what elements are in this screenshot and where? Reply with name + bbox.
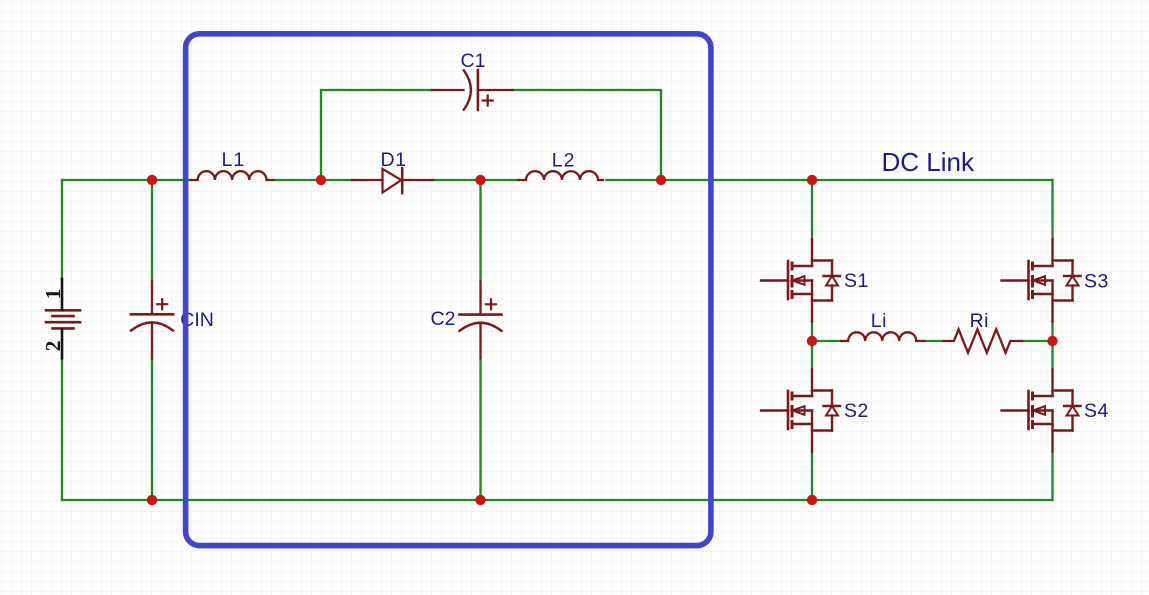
S3 source left branch xyxy=(1033,293,1053,295)
node mid rail / S1-S2 xyxy=(807,336,817,346)
node top rail / S1 drain xyxy=(807,175,817,185)
S4 source pin xyxy=(1051,411,1053,452)
capacitor C2 xyxy=(460,281,502,358)
S3 body diode xyxy=(1071,261,1073,277)
S3 source bottom-right branch xyxy=(1053,299,1073,301)
S4 gate line xyxy=(1027,391,1030,429)
svg-text:D1: D1 xyxy=(381,149,407,171)
svg-text:S2: S2 xyxy=(844,400,869,422)
svg-text:2: 2 xyxy=(41,341,65,352)
battery BAT plates xyxy=(46,310,80,328)
S2 drain pin xyxy=(811,370,813,397)
svg-text:1: 1 xyxy=(41,289,65,300)
wire S1 to S2 xyxy=(811,322,813,370)
S4 channel bars xyxy=(1031,392,1034,430)
wire C1 right branch xyxy=(513,90,661,180)
wire Li to Ri xyxy=(925,340,944,342)
wire C2 column bottom xyxy=(479,358,481,500)
blue highlight box xyxy=(186,34,711,546)
node top rail / C1 right branch xyxy=(656,175,666,185)
wire mid rail to Li xyxy=(812,340,841,342)
S1 source left branch xyxy=(792,293,812,295)
transistor S4 xyxy=(1002,370,1081,452)
wire top rail segment D1 to L2 xyxy=(433,179,519,181)
capacitor CIN xyxy=(131,281,173,358)
wire Ri to right column xyxy=(1022,340,1053,342)
wire left column above battery xyxy=(61,180,63,279)
S3 gate stub xyxy=(1002,279,1029,281)
S4 gate stub xyxy=(1002,409,1029,411)
node top rail / C1 left branch xyxy=(316,175,326,185)
S4 source bottom-right branch xyxy=(1053,429,1073,431)
wire right column below S4 xyxy=(1051,451,1053,500)
svg-text:L2: L2 xyxy=(552,150,576,172)
S1 body diode xyxy=(831,261,833,277)
S4 source left branch xyxy=(1033,423,1053,425)
S1 drain top-right branch xyxy=(812,259,832,261)
wire top rail segment L1 to D1 xyxy=(273,179,352,181)
S1 gate line xyxy=(787,261,790,299)
wire C2 column top xyxy=(479,180,481,281)
S1 bulk arrow xyxy=(793,279,812,281)
svg-text:S1: S1 xyxy=(844,270,869,292)
wire below S2 xyxy=(811,451,813,500)
node bottom rail / C2 xyxy=(475,495,485,505)
wire top rail segment L2 to right corner xyxy=(607,179,1053,181)
S2 drain top-right branch xyxy=(812,389,832,391)
inductor Li xyxy=(841,332,924,341)
capacitor C1 xyxy=(432,70,513,110)
S2 bulk arrow xyxy=(793,409,812,411)
S2 gate line xyxy=(787,391,790,429)
S3 bulk arrow xyxy=(1034,279,1053,281)
node bottom rail / CIN xyxy=(147,495,157,505)
S2 channel bars xyxy=(791,392,794,430)
node top rail / battery+CIN xyxy=(147,175,157,185)
S3 gate line xyxy=(1027,261,1030,299)
wire C1 left branch xyxy=(321,90,432,180)
S3 drain top-right branch xyxy=(1053,259,1073,261)
svg-text:Ri: Ri xyxy=(970,310,989,332)
diode D1 xyxy=(352,168,433,193)
svg-text:Li: Li xyxy=(871,310,887,332)
S2 source bottom-right branch xyxy=(812,429,832,431)
svg-text:S4: S4 xyxy=(1084,400,1109,422)
wire right column S3 to S4 xyxy=(1051,322,1053,370)
node mid rail / S3-S4 xyxy=(1047,336,1057,346)
battery pins (black) xyxy=(61,279,64,358)
S3 drain left branch xyxy=(1033,265,1053,267)
S4 drain pin xyxy=(1051,370,1053,397)
S1 drain left branch xyxy=(792,265,812,267)
wire CIN column top xyxy=(151,180,153,281)
node top rail / C2 xyxy=(475,175,485,185)
transistor S3 xyxy=(1002,240,1081,322)
S1 source pin xyxy=(811,281,813,322)
svg-text:C1: C1 xyxy=(461,50,486,72)
svg-text:L1: L1 xyxy=(222,149,246,171)
S3 source pin xyxy=(1051,281,1053,322)
svg-text:DC Link: DC Link xyxy=(882,147,975,177)
wire S1 column top xyxy=(811,180,813,240)
S4 body diode xyxy=(1071,391,1073,407)
transistor S2 xyxy=(761,370,840,452)
wire bottom rail xyxy=(62,499,1053,501)
S3 channel bars xyxy=(1031,262,1034,300)
svg-text:C2: C2 xyxy=(431,308,456,330)
S2 body diode xyxy=(831,391,833,407)
wire right column above S3 xyxy=(1051,180,1053,240)
S1 channel bars xyxy=(791,262,794,300)
resistor Ri xyxy=(943,329,1022,352)
node bottom rail / S2 source xyxy=(807,495,817,505)
S1 drain pin xyxy=(811,240,813,267)
svg-text:S3: S3 xyxy=(1084,271,1109,293)
S2 source left branch xyxy=(792,423,812,425)
wire left column below battery xyxy=(61,358,63,500)
S2 gate stub xyxy=(761,409,788,411)
inductor L1 xyxy=(191,171,274,180)
S1 source bottom-right branch xyxy=(812,299,832,301)
transistor S1 xyxy=(761,240,840,322)
wire CIN column bottom xyxy=(151,358,153,500)
S2 source pin xyxy=(811,411,813,452)
S3 drain pin xyxy=(1051,240,1053,267)
S4 bulk arrow xyxy=(1034,409,1053,411)
wire top rail segment left (battery to L1) xyxy=(62,179,191,181)
S2 drain left branch xyxy=(792,395,812,397)
S1 gate stub xyxy=(761,279,788,281)
S4 drain left branch xyxy=(1033,395,1053,397)
inductor L2 xyxy=(519,171,604,180)
S4 drain top-right branch xyxy=(1053,389,1073,391)
